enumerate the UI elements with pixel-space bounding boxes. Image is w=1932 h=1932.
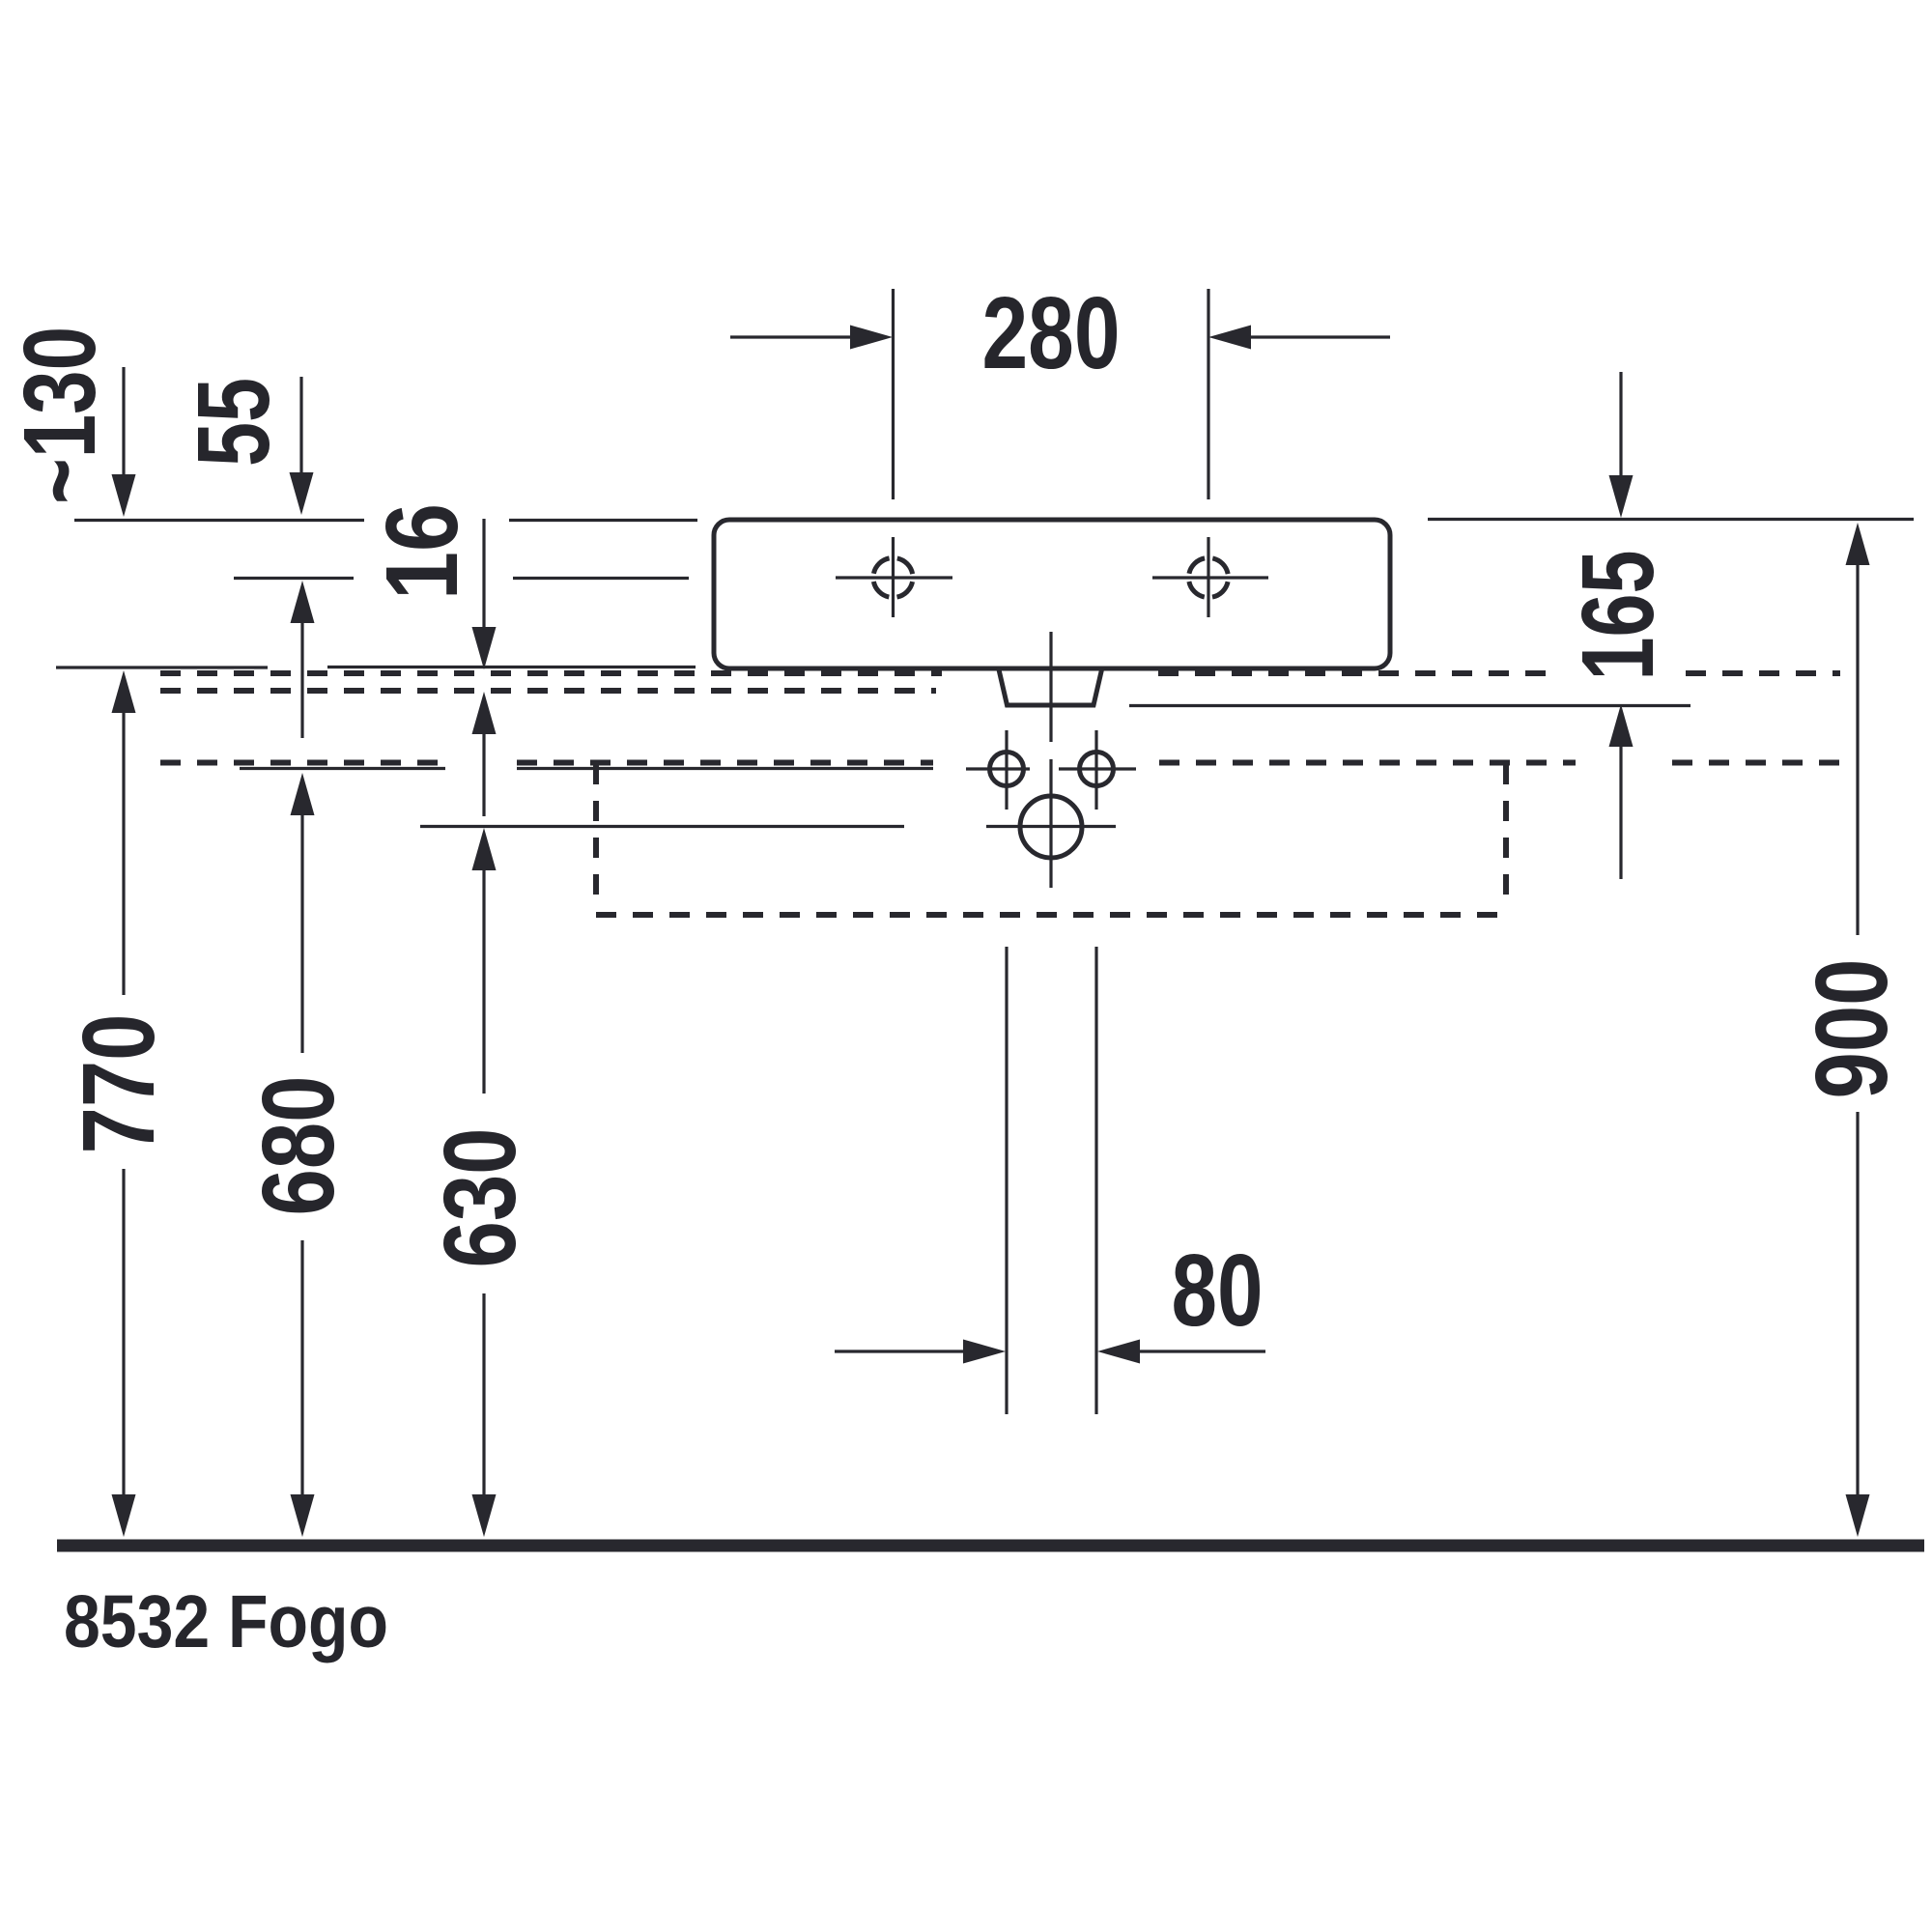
dimension 630 line upper with up arrow [472,828,497,870]
dimension 280 line right [1251,335,1390,338]
dimension ~130 arrow [122,367,125,475]
dashed hidden row C [160,760,445,766]
basin outline [714,520,1390,668]
wire console-underside right [1129,704,1690,707]
dimension 80 line left [835,1350,964,1352]
dimension 280 extension right [1207,289,1209,499]
wire basin-bottom-level left [56,666,268,668]
svg-text:900: 900 [1795,959,1909,1099]
svg-text:770: 770 [62,1014,176,1154]
wire fixing-hole-level left b [517,767,933,770]
dimension 680 line upper with up arrow [291,773,315,815]
wire rim-line right segment [1428,518,1914,521]
dimension 900 line upper with up arrow [1846,523,1870,565]
drain circle [1020,796,1082,858]
svg-text:165: 165 [1561,551,1675,681]
faucet hole right crosshair [1152,576,1268,579]
dimension 55 arrow down [299,377,302,473]
svg-text:16: 16 [365,503,479,600]
wire rim-line mid segment [509,519,697,522]
dimension 630 line lower with down arrow [482,1293,485,1495]
svg-text:80: 80 [1172,1234,1264,1348]
drain pipe right line [1094,947,1097,1414]
dimension 770 line upper with up arrow [112,670,136,713]
svg-text:280: 280 [982,276,1121,390]
dimension 16 arrow down [482,519,485,628]
dashed hidden row D console bottom [596,912,1506,918]
dashed console left edge [593,764,599,909]
dimension 770 line lower with down arrow [122,1169,125,1495]
svg-text:680: 680 [241,1076,355,1216]
wire fixing-hole-level left a [240,767,445,770]
dimension 165 arrow down [1619,372,1622,476]
faucet hole left crosshair [836,576,952,579]
dimension 900 line lower with down arrow [1856,1112,1859,1495]
wire faucet-center-line mid [513,577,689,580]
svg-text:~130: ~130 [3,327,117,504]
floor line [57,1540,1924,1552]
dimension 55 arrow up [291,581,315,623]
dimension 16 arrow up [472,692,497,734]
dashed hidden row B [160,688,936,694]
drain centerline [1049,632,1052,742]
faucet hole right dashed circle [1189,558,1229,598]
dimension 280 line left [730,335,851,338]
wire faucet-center-line left [234,577,354,580]
wire basin-bottom-level left b [327,666,696,668]
dashed console right edge [1503,764,1509,909]
dashed hidden row A [160,670,942,676]
wire rim-line left segment [74,519,364,522]
fixing hole right circle [1080,753,1114,786]
drain boss trapezoid [999,668,1103,705]
dimension 680 line lower with down arrow [300,1240,303,1495]
wire drain-center-level left [420,825,904,828]
faucet hole left dashed circle [873,558,913,598]
fixing hole left circle [990,753,1024,786]
svg-text:8532 Fogo: 8532 Fogo [64,1580,388,1663]
drain pipe left line [1005,947,1008,1414]
dimension 80 line right [1140,1350,1265,1352]
dimension 165 arrow up [1609,704,1634,747]
svg-text:55: 55 [177,378,291,467]
dimension 280 extension left [892,289,895,499]
svg-text:630: 630 [423,1128,537,1268]
